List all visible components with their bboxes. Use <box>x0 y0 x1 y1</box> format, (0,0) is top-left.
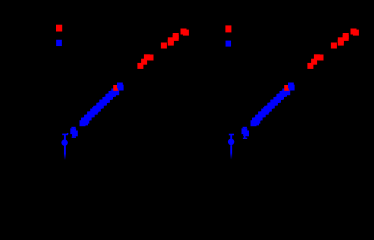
blue data band (left panel) <box>80 88 120 126</box>
legend marker red (right panel) <box>225 25 231 32</box>
blue band end blob (right panel) <box>288 83 295 91</box>
red data series (right panel) <box>307 29 359 69</box>
error-bar point cluster B2 (left panel) <box>70 127 78 138</box>
legend marker blue (left panel) <box>56 40 62 46</box>
legend marker blue (right panel) <box>226 41 232 47</box>
legend marker red (left panel) <box>56 25 62 32</box>
error-bar point B1 (left panel, bottom) <box>61 134 68 159</box>
blue data band (right panel) <box>251 88 291 126</box>
blue band end blob (left panel) <box>117 83 124 91</box>
error-bar point B1 (right panel, bottom) <box>228 135 234 160</box>
red data series (left panel) <box>137 29 189 69</box>
red point under band top (right panel) <box>284 85 290 91</box>
tiny blue dot (left panel) <box>67 133 69 135</box>
error-bar point cluster B2 (right panel) <box>242 127 250 139</box>
red point under band top (left panel) <box>113 85 119 91</box>
